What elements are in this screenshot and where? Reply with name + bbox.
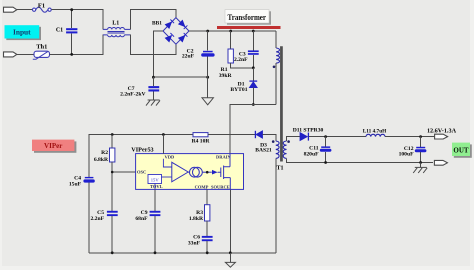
phase dot aux <box>272 140 275 143</box>
bridge rectifier BB1 <box>163 18 189 45</box>
node VDD pin <box>162 133 165 136</box>
svg-text:VDD: VDD <box>165 154 175 159</box>
svg-text:2.2nF: 2.2nF <box>234 57 248 63</box>
svg-text:12.6V-1.3A: 12.6V-1.3A <box>427 127 457 134</box>
node plus C3 <box>252 30 255 33</box>
VIPer label box <box>32 140 76 153</box>
capacitor C7 <box>148 77 159 100</box>
capacitor C1 <box>66 10 77 55</box>
node drain D1 <box>252 103 255 106</box>
node snubber <box>252 66 255 69</box>
Input label box <box>5 25 42 40</box>
node C6 gnd <box>206 251 209 254</box>
node C12 bottom <box>419 161 422 164</box>
VDD rail wire <box>89 135 193 178</box>
node plus C2 <box>206 30 209 33</box>
wire top input <box>17 9 33 11</box>
node C12 top <box>419 135 422 138</box>
wire OSC stub <box>112 171 135 173</box>
svg-text:R3: R3 <box>196 210 203 216</box>
wire primary bottom <box>275 63 277 104</box>
input terminal J2 (neutral) <box>4 52 17 57</box>
capacitor C6 <box>202 236 213 253</box>
wire secondary top <box>287 137 301 141</box>
svg-text:L1: L1 <box>112 20 119 26</box>
svg-text:COMP: COMP <box>195 184 209 189</box>
wire L1 to bridge bottom <box>131 35 176 55</box>
diode BB1 bottom-right <box>179 33 188 42</box>
wire C12 to earth <box>420 163 422 168</box>
svg-text:BB1: BB1 <box>152 20 162 26</box>
wire SOURCE pin down <box>229 189 231 252</box>
diode BB1 top-right <box>179 20 188 29</box>
reference 15V box <box>148 175 162 184</box>
wire L1 to bridge top <box>131 10 176 30</box>
wire VDD internal <box>163 159 171 167</box>
inductor L11 <box>366 134 385 136</box>
capacitor C11 <box>320 137 332 163</box>
node plus R1 <box>229 30 232 33</box>
svg-text:100uF: 100uF <box>399 152 415 158</box>
wire TOVL pin to C9 <box>154 189 156 210</box>
svg-text:6.8kR: 6.8kR <box>94 157 109 163</box>
svg-text:39kR: 39kR <box>219 73 233 79</box>
svg-text:F1: F1 <box>38 2 45 9</box>
svg-text:15V: 15V <box>151 178 160 183</box>
input terminal J1 (line) <box>4 7 17 12</box>
node COMP internal <box>206 171 209 174</box>
svg-text:D11 STPR30: D11 STPR30 <box>293 128 324 134</box>
node minus rail right <box>206 76 209 79</box>
red underline <box>217 26 281 29</box>
wire COMP pin to R3 <box>206 189 208 204</box>
svg-text:Th1: Th1 <box>36 44 47 51</box>
node minus rail left <box>152 76 155 79</box>
svg-text:L11 4.7uH: L11 4.7uH <box>363 129 387 135</box>
svg-text:C1: C1 <box>56 28 63 34</box>
node VDD R2 <box>111 133 114 136</box>
node C9 gnd <box>154 251 157 254</box>
wire th1 to L1 <box>50 35 104 55</box>
op-amp U1 comparator <box>172 162 188 182</box>
output terminal plus <box>435 134 448 139</box>
svg-text:1.8kR: 1.8kR <box>189 216 204 222</box>
node C11 bottom <box>324 161 327 164</box>
svg-text:C5: C5 <box>97 210 104 216</box>
transformer core <box>281 46 282 161</box>
svg-text:Input: Input <box>13 28 31 37</box>
wire aux return <box>275 158 277 252</box>
earth ground (C12) <box>413 167 427 173</box>
svg-text:R2: R2 <box>101 150 108 156</box>
fuse F1 <box>33 7 52 12</box>
IC U1 VIPer53 box <box>136 154 244 190</box>
diode BB1 top-left <box>165 20 174 29</box>
svg-text:VIPer53: VIPer53 <box>131 146 153 153</box>
capacitor C9 <box>150 211 161 253</box>
svg-text:BAS21: BAS21 <box>255 148 272 154</box>
resistor R3 <box>205 205 210 221</box>
svg-text:VIPer: VIPer <box>44 142 62 150</box>
svg-text:TOVL: TOVL <box>150 184 163 189</box>
wire R4 to D3 <box>208 134 255 136</box>
diode D11 <box>300 133 308 141</box>
wire L11 to out <box>385 136 435 138</box>
svg-text:BYT01: BYT01 <box>230 87 247 93</box>
wire bottom input <box>17 53 34 55</box>
wire plus rail to primary <box>275 31 277 48</box>
svg-text:OSC: OSC <box>137 170 146 175</box>
svg-text:C9: C9 <box>141 210 148 216</box>
Transformer title box <box>225 10 271 25</box>
node C5 gnd <box>111 251 114 254</box>
diode BB1 bottom-left <box>165 33 174 42</box>
svg-text:Transformer: Transformer <box>228 13 267 22</box>
node OSC <box>111 171 114 174</box>
bottom ground rail <box>89 252 276 254</box>
node SOURCE gnd <box>229 251 232 254</box>
svg-text:T1: T1 <box>276 166 283 172</box>
current source symbol <box>188 167 212 177</box>
wire source internal <box>229 178 231 190</box>
transformer T1 primary winding <box>276 48 279 63</box>
snubber resistor R1 <box>228 31 253 68</box>
wire TOVL internal <box>154 184 156 190</box>
node C1 top <box>70 8 73 11</box>
svg-text:2.2nF-2kV: 2.2nF-2kV <box>120 92 145 98</box>
node C1 bottom <box>70 53 73 56</box>
capacitor C2 <box>201 31 214 77</box>
svg-text:SOURCE: SOURCE <box>211 184 230 189</box>
thermistor Th1 <box>33 51 50 59</box>
svg-text:22uF: 22uF <box>182 54 195 60</box>
ground triangle (C2) <box>202 98 213 105</box>
wire D11 to L11 <box>309 136 366 138</box>
snubber capacitor C3 <box>248 31 259 68</box>
svg-text:R4 10R: R4 10R <box>192 139 211 145</box>
capacitor C5 <box>107 211 118 253</box>
svg-text:33nF: 33nF <box>188 241 201 247</box>
wire C2 to ground <box>207 77 209 98</box>
svg-text:68nF: 68nF <box>135 216 148 222</box>
OUT label box <box>452 143 472 158</box>
output terminal minus <box>434 160 447 165</box>
wire VDD pin stub <box>162 135 164 154</box>
wire drain node <box>230 105 276 154</box>
wire R3 to C6 <box>206 221 208 236</box>
transformer T1 aux winding <box>276 141 279 158</box>
wire D3 to aux winding <box>263 135 276 142</box>
mosfet Q internal <box>218 166 231 180</box>
svg-text:820uF: 820uF <box>304 151 320 157</box>
ground triangle (source) <box>225 253 235 267</box>
diode D3 <box>255 131 262 138</box>
phase dot primary <box>273 66 276 69</box>
wire drain internal <box>229 154 231 167</box>
wire secondary bottom <box>287 158 434 162</box>
svg-text:2.2nF: 2.2nF <box>90 216 104 222</box>
wire bridge minus rail <box>153 31 207 77</box>
left rail with capacitor C4 <box>83 177 94 253</box>
transformer T1 secondary <box>283 141 286 158</box>
svg-text:15uF: 15uF <box>69 181 82 187</box>
resistor R2 <box>110 135 115 211</box>
common-mode choke L1 <box>103 27 131 36</box>
wire bridge plus rail <box>189 30 276 32</box>
svg-text:OUT: OUT <box>453 146 469 154</box>
earth ground (C7) <box>146 100 160 106</box>
diode D1 <box>249 68 257 105</box>
wire fuse to L1 <box>51 10 103 30</box>
resistor R4 <box>193 133 208 137</box>
svg-text:DRAIN: DRAIN <box>216 154 232 159</box>
wire 15V to comparator <box>162 176 172 178</box>
phase dot secondary <box>287 140 290 143</box>
node C11 top <box>324 135 327 138</box>
capacitor C12 <box>415 137 427 163</box>
arrow to mosfet gate <box>212 170 218 175</box>
